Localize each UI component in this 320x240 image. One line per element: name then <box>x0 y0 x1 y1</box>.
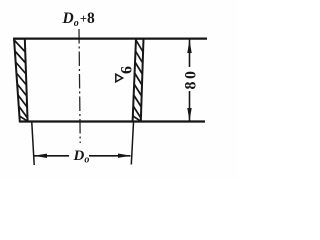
D0 right arrow (points right) <box>118 154 131 158</box>
center line (vertical dash-dot axis) <box>79 29 80 143</box>
svg-text:6: 6 <box>119 66 136 74</box>
top edge / dimension line D0+8 <box>14 37 207 39</box>
left wall hatching <box>14 40 28 121</box>
D0 dimension line right segment with right arrow <box>89 155 131 157</box>
D0 left arrow (points left) <box>34 154 47 158</box>
surface finish triangle (nabla of rotated "∇6") <box>116 74 123 82</box>
left wall section outline <box>14 39 28 122</box>
left extension line (bottom D0 dimension) <box>32 123 34 166</box>
right wall hatching <box>133 40 143 121</box>
80 dimension line (vertical, with gap for text) <box>189 40 191 68</box>
right extension line (bottom D0 dimension) <box>131 123 133 165</box>
D0 dimension line left segment with left arrow <box>34 155 69 157</box>
svg-text:80: 80 <box>183 69 200 90</box>
80 dimension top arrow (points up) <box>187 40 191 53</box>
80 dimension bottom arrow (points down) <box>187 108 191 121</box>
right wall section outline <box>133 39 144 122</box>
bottom edge / extension line to 80 dimension <box>20 120 206 122</box>
